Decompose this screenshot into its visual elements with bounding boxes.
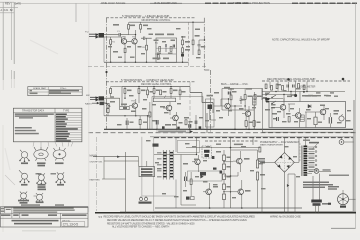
wire: bias chain taps	[224, 162, 238, 192]
svg-text:MAINS TRANSFORMER: MAINS TRANSFORMER	[260, 144, 283, 147]
leads from table to pinouts	[33, 142, 73, 147]
dashed aux line	[299, 143, 301, 161]
junction dots mid amp	[124, 86, 190, 130]
resistor R24	[138, 89, 140, 94]
svg-text:TYPE: TYPE	[63, 110, 70, 113]
border frame bottom right corner	[331, 227, 356, 229]
wire: input pair	[104, 35, 122, 42]
transformer T1	[302, 137, 319, 176]
resistor R32	[110, 89, 112, 94]
svg-text:DATE: DATE	[15, 2, 22, 5]
output transistor TR10	[233, 151, 242, 172]
table row lines right column	[55, 115, 82, 140]
svg-text:5·TRANSISTORS — COMPACT HEAD: 5·TRANSISTORS — COMPACT HEAD AMP.	[121, 78, 174, 82]
svg-text:ALL VOLTAGES REFER TO CHASSIS: ALL VOLTAGES REFER TO CHASSIS — NEG. EAR…	[112, 226, 169, 229]
wire: ground rail top amp	[104, 61, 189, 63]
resistor R55 in box	[288, 117, 290, 123]
pinout AD140	[34, 193, 44, 203]
output smudge labels	[183, 146, 265, 192]
svg-text:EQ: EQ	[155, 43, 158, 45]
smudge near bridge top	[303, 140, 310, 141]
svg-text:ON/OFF SW.: ON/OFF SW.	[90, 162, 103, 164]
pinout NKT251 case	[34, 147, 48, 161]
svg-text:CTL.13-0-5: CTL.13-0-5	[63, 222, 78, 226]
section boundary dash mid-right	[189, 82, 191, 129]
fuse FS1 cluster	[139, 196, 152, 204]
output stage boundary dashes	[205, 140, 258, 142]
volume pot VR1	[120, 106, 130, 109]
svg-text:TRANSISTOR DATA: TRANSISTOR DATA	[22, 110, 44, 113]
resistor R1	[110, 40, 112, 45]
resistor R53	[298, 84, 300, 89]
resistor R52	[185, 120, 187, 125]
svg-text:RADIO: RADIO	[85, 103, 92, 106]
junction dots bottom rail	[125, 212, 319, 214]
resistor R9	[182, 48, 184, 53]
faint scan streaks	[5, 40, 58, 170]
wire: output stage rails	[154, 148, 260, 209]
dark electrolytic blobs on rail	[162, 126, 165, 129]
resistor R46	[230, 95, 232, 100]
resistor R8	[182, 40, 184, 45]
pinout OC44	[56, 172, 66, 183]
dark cluster right	[265, 98, 269, 103]
wire: across top of meter box	[262, 92, 345, 102]
transistor TR1	[121, 36, 126, 62]
component value smudges mid amp	[110, 90, 189, 126]
diode D2	[201, 175, 204, 178]
capacitor C46	[287, 85, 289, 88]
resistor R49	[245, 121, 247, 127]
svg-text:ONE HALF SCALE: ONE HALF SCALE	[101, 1, 125, 5]
wire: meter box bottom double	[262, 131, 354, 133]
reference note text right	[303, 182, 333, 189]
erase head box	[206, 99, 215, 127]
inner mains box left edge	[142, 137, 176, 196]
resistor R25	[147, 90, 149, 95]
pinout NKT214	[20, 150, 30, 162]
capacitor C4 in box	[165, 44, 166, 52]
selector tap labels	[157, 152, 162, 177]
output resistors right	[256, 160, 258, 168]
record level pot VR2	[153, 98, 175, 102]
dark blob left of motor	[328, 203, 331, 205]
svg-text:5.5: 5.5	[99, 215, 103, 219]
title block top heavy line	[4, 206, 88, 208]
driver transistor TR9	[192, 155, 200, 172]
svg-text:P/No's: P/No's	[60, 88, 67, 90]
pinout OC81	[53, 147, 66, 160]
secondary vertical runs	[313, 174, 320, 200]
right column type cells	[56, 114, 78, 142]
capacitor C41 in meter box	[329, 117, 331, 123]
svg-text:MICROPHONE CONTROL: MICROPHONE CONTROL	[142, 19, 171, 22]
box internal smudges	[149, 29, 201, 59]
transistor TR5	[170, 112, 178, 129]
resistor R2 bias from rail	[128, 25, 130, 30]
resistor R5	[146, 45, 148, 50]
pinout 2N706	[37, 173, 47, 184]
diode D3 on drop	[287, 184, 289, 187]
section title underline dashes right	[262, 80, 350, 82]
resistor R7 in box	[170, 47, 172, 52]
resistor R6 in box	[159, 47, 161, 52]
output transistor TR11	[234, 180, 244, 208]
transistor TR14	[242, 106, 251, 129]
junction dots	[110, 22, 205, 63]
junction blob on boundary	[105, 71, 107, 73]
connector J2 mic input	[86, 95, 104, 101]
wire stubs below right title	[270, 82, 307, 95]
capacitor C45	[195, 121, 197, 125]
tap terminal circles	[315, 146, 317, 170]
svg-text:REC·PB·SWITCHING·OSCILLATOR·AM: REC·PB·SWITCHING·OSCILLATOR·AMP.	[267, 77, 316, 81]
faint smudge below title block	[22, 230, 56, 231]
svg-text:IF IN DOUBT ASK: IF IN DOUBT ASK	[154, 1, 177, 5]
border frame top line	[14, 2, 100, 4]
resistor R26	[153, 89, 155, 94]
connector J1 playback head input	[85, 32, 104, 39]
dark blob right	[342, 78, 345, 81]
capacitor C23 electrolytic	[189, 124, 191, 128]
scattered tiny labels	[108, 28, 334, 198]
svg-text:BIAS — ERASE — OSC.: BIAS — ERASE — OSC.	[221, 82, 249, 86]
resistor R28	[170, 89, 172, 94]
extra small parts right amp	[262, 84, 351, 128]
resistor R42	[271, 86, 273, 91]
wire: osc section	[222, 89, 254, 111]
resistor R45 in meter box	[314, 117, 317, 125]
capacitor C48 in box	[277, 117, 279, 121]
resistor R12 in box	[157, 55, 159, 60]
power box outline	[154, 137, 353, 212]
svg-text:P.U.: P.U.	[85, 32, 89, 34]
svg-text:A · 6-61 · B2: A · 6-61 · B2	[1, 9, 14, 12]
border frame right edge	[355, 3, 357, 228]
driver transistor TR12	[203, 183, 211, 208]
component value smudges top amp	[113, 24, 205, 59]
resistor R30	[149, 112, 151, 117]
resistor R11	[198, 50, 200, 55]
transistor TR6	[277, 98, 286, 118]
resistor R51	[190, 179, 192, 185]
capacitor C47	[293, 85, 295, 88]
resistor R31	[139, 120, 141, 125]
wire: earth lead	[102, 178, 126, 180]
switch S1 contacts	[266, 93, 276, 104]
resistor R29	[179, 90, 181, 95]
svg-text:5·TRANSISTOR — LINEAR HEAD A: 5·TRANSISTOR — LINEAR HEAD AMP.	[122, 14, 170, 18]
wire: interstage	[126, 35, 136, 42]
transistor TR8 in meter box	[317, 105, 326, 121]
voltage adjust note box with arrow	[157, 130, 193, 133]
wire: left vertical runs	[181, 155, 196, 206]
arrow into mic stage	[105, 103, 110, 107]
lead letter labels row2	[36, 173, 57, 175]
bias smudge labels	[189, 87, 262, 123]
resistor R27	[160, 90, 162, 95]
core lines	[302, 146, 303, 177]
capacitor C42	[240, 96, 243, 104]
top margin stub line	[75, 3, 77, 22]
wire: feeds from box top	[197, 137, 254, 148]
motor label text	[328, 186, 339, 190]
svg-text:LEVEL METER: LEVEL METER	[299, 86, 316, 89]
component on selector top	[153, 144, 159, 147]
wire: mains drop to bottom rail	[125, 152, 127, 213]
wire: head section dashed divider	[188, 22, 190, 66]
mains terminal block	[139, 157, 155, 177]
title block note paragraph	[1, 208, 75, 213]
motor M	[338, 190, 356, 208]
section title underline dashes	[106, 81, 196, 83]
wire: heavy bottom rail	[95, 212, 356, 214]
title block drawing title	[12, 220, 59, 225]
connector J3 radio input	[85, 102, 104, 106]
wire: bus into right section	[222, 89, 262, 101]
revision strip left margin vertical lines	[2, 2, 4, 80]
svg-text:REV: REV	[5, 1, 11, 5]
wire: top supply rail	[129, 21, 205, 23]
svg-text:RECORD LEVEL CONTROL: RECORD LEVEL CONTROL	[141, 83, 172, 86]
tap wires and labels	[307, 147, 314, 174]
section boundary dash-dot left	[106, 18, 108, 129]
resistor R21	[107, 103, 109, 108]
svg-text:SPARE PART: SPARE PART	[33, 87, 47, 90]
wire: reservoir drop	[261, 161, 263, 213]
blank sub-box output stage	[177, 141, 199, 153]
dark blob junction	[287, 78, 289, 80]
terminal pair bottom	[186, 197, 194, 200]
capacitor C1	[119, 33, 120, 36]
smudges mid-bottom strip	[117, 122, 147, 126]
valve rectifier V1	[339, 138, 353, 145]
wire: mic input run	[104, 98, 120, 106]
thermistor dark blob	[220, 171, 223, 174]
wire: right section left rail	[262, 88, 264, 133]
left column dense note text	[15, 113, 54, 118]
title block row drn	[1, 214, 87, 216]
capacitor C3 coupling	[141, 37, 152, 41]
resistor R22	[107, 109, 109, 113]
svg-text:WIRING No ON 2N3055 CASE: WIRING No ON 2N3055 CASE	[270, 215, 301, 218]
primary top feed	[305, 137, 307, 146]
power box top line	[150, 136, 353, 138]
fuse FS2 cluster	[311, 200, 329, 213]
wire: bridge connections	[262, 137, 299, 213]
resistor R47	[244, 95, 246, 100]
resistor R50	[253, 121, 255, 127]
transistor TR2	[132, 30, 137, 62]
section title underline dashes	[106, 17, 196, 19]
stage enclosure wires	[152, 97, 203, 130]
svg-text:EARTHED: EARTHED	[90, 179, 101, 182]
oscillator coil left of box	[253, 92, 256, 129]
wire: mid ground rail	[104, 115, 150, 117]
240V top label	[309, 142, 319, 144]
meter label smudges	[214, 88, 339, 115]
transistor data table	[13, 108, 82, 142]
transistor TR13	[221, 99, 230, 116]
pilot lamp LP1	[314, 169, 319, 174]
pinout NKT213	[19, 170, 29, 183]
junction dots bias	[195, 98, 250, 130]
output coupling box	[188, 171, 223, 181]
transistor TR3	[129, 99, 137, 116]
capacitor C44	[228, 92, 230, 95]
capacitor C24	[126, 121, 128, 126]
pinout 2N3055 case	[20, 192, 28, 202]
wires bias area	[214, 99, 242, 129]
resistor R23 from rail	[124, 89, 126, 94]
relay dashed box	[202, 146, 212, 158]
wire from lamp	[319, 170, 331, 172]
revision strip row lines	[0, 2, 18, 13]
primary winding	[304, 146, 308, 176]
wire: label feed vertical	[103, 157, 105, 179]
capacitor C22 electrolytic	[156, 120, 158, 125]
wire: mid top supply rail	[122, 86, 190, 88]
resistor R4	[140, 25, 142, 30]
resistor R3 emitter	[124, 48, 126, 52]
erase head blob	[208, 105, 213, 110]
capacitor C6 in box	[173, 45, 174, 48]
wire: upper bus right amp	[262, 92, 296, 102]
smoothing cap C50 labels	[258, 158, 265, 164]
svg-text:MIC: MIC	[86, 95, 90, 97]
wire: heavy mid rail	[104, 128, 353, 130]
smudges right amp	[265, 84, 351, 123]
meter M1	[339, 116, 344, 121]
section boundary dashed bottom	[88, 66, 208, 68]
resistor R41	[265, 84, 267, 89]
diode D1 in meter box	[308, 105, 311, 109]
equalisation feedback box	[156, 38, 177, 62]
meter box	[269, 102, 346, 128]
resistor R56	[259, 147, 261, 152]
junction dots right amp	[275, 91, 307, 95]
wire: mains leads with arrow	[93, 157, 139, 161]
spare parts table	[28, 87, 82, 96]
resistor R44	[282, 86, 284, 91]
section boundary dash-dot right with jog	[204, 18, 210, 133]
junction dots output	[196, 147, 243, 209]
resistor R48	[254, 95, 256, 100]
section divider dashed mid	[88, 132, 356, 134]
pilot lights text	[329, 175, 349, 177]
transistor TR7	[292, 108, 301, 128]
capacitor C31	[185, 177, 187, 182]
svg-text:NOTE: CAPACITORS ALL VALUES: NOTE: CAPACITORS ALL VALUES A No OF MFD/…	[272, 37, 330, 41]
resistor R54	[303, 85, 305, 90]
bridge rectifier MR1	[275, 153, 295, 173]
lower section boundary dash-dot	[96, 137, 98, 211]
resistor R10	[192, 40, 194, 45]
transistor TR4	[163, 102, 172, 115]
paper fold line	[88, 4, 90, 212]
wire: staircase to right section	[190, 93, 213, 134]
capacitor C5 output	[198, 45, 201, 51]
heavy dashed separator above power box	[154, 137, 353, 139]
voltage selector switch	[157, 138, 176, 208]
junction heavy blob	[294, 94, 297, 97]
wire: secondary drops	[288, 174, 295, 213]
border frame top heavy dashed segments	[205, 2, 357, 4]
bias resistor chain	[223, 150, 226, 208]
wires in box	[272, 104, 317, 128]
svg-text:THIRD ANGLE PROJECTION: THIRD ANGLE PROJECTION	[233, 1, 270, 5]
terminal strip in meter box	[300, 115, 304, 121]
pot wiper tick	[123, 107, 127, 109]
resistor R43	[276, 84, 278, 89]
dark blob near relay area	[212, 156, 215, 159]
